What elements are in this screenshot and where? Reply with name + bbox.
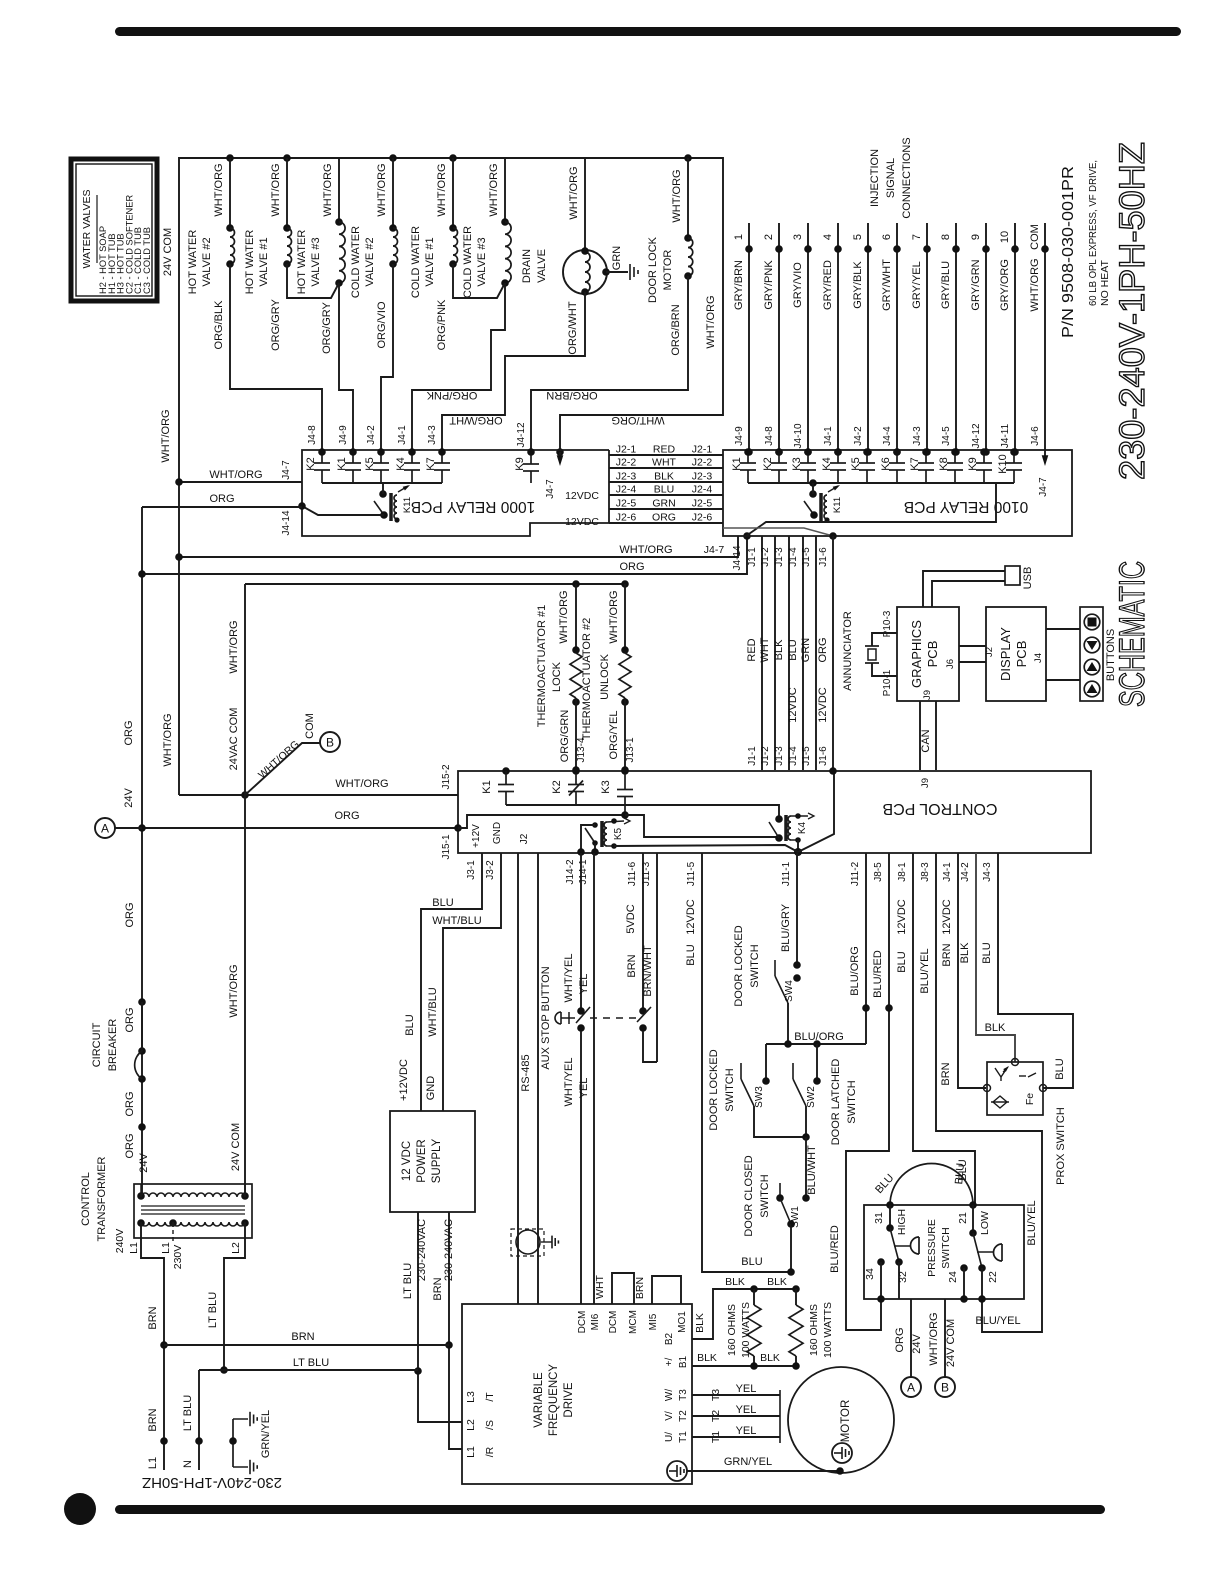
svg-text:12VDC: 12VDC [896, 899, 908, 935]
svg-text:L2: L2 [230, 1242, 242, 1254]
RS-485 wires [517, 853, 519, 1304]
page footer bar [115, 1505, 1105, 1514]
relay K5 control pcb [592, 822, 598, 828]
svg-text:J4: J4 [1033, 653, 1044, 663]
svg-text:J4-7: J4-7 [545, 479, 556, 499]
svg-text:160 OHMS: 160 OHMS [808, 1304, 820, 1356]
wire GRN/YEL ground link [687, 1470, 840, 1472]
svg-text:BLU/RED: BLU/RED [872, 950, 884, 998]
svg-text:K5: K5 [364, 457, 376, 470]
svg-text:WHT/ORG: WHT/ORG [376, 163, 388, 216]
svg-text:J14-1: J14-1 [578, 859, 589, 884]
svg-text:ORG/GRN: ORG/GRN [559, 710, 571, 763]
thermoactuator #2 UNLOCK [624, 584, 626, 650]
svg-text:J4-3: J4-3 [912, 426, 923, 446]
svg-text:31: 31 [873, 1212, 885, 1224]
svg-text:12VDC: 12VDC [941, 899, 953, 935]
svg-text:LOW: LOW [979, 1211, 991, 1235]
svg-text:K10: K10 [997, 454, 1009, 474]
svg-text:RED: RED [746, 638, 758, 661]
svg-text:+/: +/ [664, 1357, 675, 1366]
relay coil K11 0100 pcb [809, 479, 817, 487]
svg-text:L1: L1 [128, 1242, 140, 1254]
control pcb step +12V [458, 815, 490, 828]
svg-text:J1-4: J1-4 [788, 547, 799, 567]
wire GRN to earth [606, 271, 628, 273]
svg-text:J4-1: J4-1 [942, 862, 953, 882]
svg-text:J1-2: J1-2 [760, 547, 771, 567]
svg-text:L1: L1 [160, 1242, 172, 1254]
svg-text:SWITCH: SWITCH [749, 944, 761, 987]
wire ORG rail to J4-14 [142, 536, 747, 574]
svg-text:+12V: +12V [471, 824, 482, 848]
svg-text:WHT: WHT [594, 1274, 606, 1298]
MOTOR circle [788, 1367, 894, 1473]
svg-text:GRY/VIO: GRY/VIO [792, 262, 804, 308]
svg-text:J4-7: J4-7 [281, 460, 292, 480]
svg-text:DISPLAY: DISPLAY [998, 627, 1013, 681]
svg-text:ORG/VIO: ORG/VIO [376, 301, 388, 349]
svg-text:J9: J9 [920, 778, 931, 788]
prox contact symbol [1019, 1075, 1026, 1077]
svg-text:K8: K8 [938, 457, 950, 470]
svg-text:K9: K9 [514, 457, 526, 470]
svg-text:12 VDC: 12 VDC [401, 1141, 413, 1181]
svg-text:K7: K7 [909, 457, 921, 470]
svg-text:DOOR LOCK: DOOR LOCK [647, 236, 659, 303]
svg-text:230-240V-1PH-50HZ: 230-240V-1PH-50HZ [142, 1474, 282, 1491]
svg-text:5VDC: 5VDC [625, 904, 637, 933]
12 VDC POWER SUPPLY box [390, 1111, 475, 1212]
svg-text:ORG/WHT: ORG/WHT [449, 414, 502, 426]
svg-text:BLK: BLK [985, 1022, 1006, 1034]
svg-text:GRN/YEL: GRN/YEL [724, 1456, 772, 1468]
svg-text:J4-2: J4-2 [853, 426, 864, 446]
svg-text:J1-3: J1-3 [774, 746, 785, 766]
svg-text:GRAPHICS: GRAPHICS [909, 620, 924, 688]
svg-text:SW2: SW2 [806, 1086, 817, 1108]
svg-text:YEL: YEL [736, 1425, 757, 1437]
svg-text:GRY/WHT: GRY/WHT [881, 259, 893, 311]
svg-text:230-240VAC: 230-240VAC [443, 1219, 455, 1281]
svg-text:J14-2: J14-2 [565, 859, 576, 884]
relay contact K2 [321, 450, 323, 463]
svg-text:ORG: ORG [619, 561, 644, 573]
terminal A wire [910, 1299, 912, 1377]
svg-text:BRN: BRN [941, 943, 953, 966]
svg-text:HOT WATER: HOT WATER [296, 230, 308, 295]
svg-text:J6: J6 [945, 659, 956, 669]
svg-text:DOOR LOCKED: DOOR LOCKED [708, 1049, 720, 1130]
svg-text:ORG: ORG [209, 493, 234, 505]
svg-text:BRN: BRN [626, 954, 638, 977]
svg-text:J11-1: J11-1 [781, 861, 792, 886]
svg-text:CIRCUIT: CIRCUIT [91, 1022, 103, 1067]
svg-text:BLU/RED: BLU/RED [829, 1225, 841, 1273]
svg-text:100 WATTS: 100 WATTS [740, 1302, 752, 1358]
svg-text:USB: USB [1022, 567, 1034, 590]
svg-text:BLK: BLK [697, 1352, 717, 1364]
wire B2 to resistor bank [692, 1289, 796, 1339]
drain valve [584, 158, 586, 250]
wire LT BLU mains bus [199, 1369, 418, 1371]
svg-text:WHT/ORG: WHT/ORG [335, 778, 388, 790]
svg-text:K9: K9 [967, 457, 979, 470]
pressure switch HIGH contact 31-32 [889, 1205, 891, 1226]
svg-text:24V COM: 24V COM [162, 228, 174, 276]
svg-text:12VDC: 12VDC [817, 687, 829, 723]
svg-text:J4-1: J4-1 [397, 425, 408, 445]
svg-text:24V: 24V [911, 1334, 923, 1354]
svg-text:J2-1: J2-1 [616, 444, 637, 456]
svg-text:SWITCH: SWITCH [724, 1068, 736, 1111]
PROX SWITCH box [987, 1062, 1043, 1115]
svg-text:ORG: ORG [817, 637, 829, 662]
svg-text:BLU: BLU [981, 942, 993, 963]
svg-text:PCB: PCB [925, 641, 940, 668]
svg-text:ORG/WHT: ORG/WHT [567, 301, 579, 354]
svg-text:DOOR CLOSED: DOOR CLOSED [743, 1155, 755, 1236]
svg-text:B: B [941, 1381, 949, 1395]
svg-text:ORG/PNK: ORG/PNK [426, 389, 477, 401]
svg-text:3: 3 [792, 234, 804, 240]
svg-text:+12VDC: +12VDC [398, 1059, 410, 1101]
svg-text:K11: K11 [402, 497, 413, 513]
svg-text:GND: GND [425, 1076, 437, 1101]
svg-text:J8-3: J8-3 [920, 862, 931, 882]
svg-text:GRY/BLU: GRY/BLU [940, 261, 952, 309]
svg-text:ORG/GRY: ORG/GRY [321, 301, 333, 353]
svg-text:GRY/ORG: GRY/ORG [999, 259, 1011, 311]
svg-text:LT BLU: LT BLU [402, 1263, 414, 1299]
svg-text:1: 1 [733, 234, 745, 240]
svg-text:YEL: YEL [736, 1404, 757, 1416]
pressure switch LOW contact 21-22 [972, 1205, 974, 1231]
arrow J4-6 into 1000 relay pcb [556, 448, 564, 456]
svg-text:DCM: DCM [577, 1311, 588, 1334]
CAN bus wires [919, 701, 921, 770]
transformer 230V tap dashed [172, 1223, 174, 1244]
svg-text:WHT/ORG: WHT/ORG [270, 163, 282, 216]
svg-text:WHT/ORG: WHT/ORG [322, 163, 334, 216]
svg-text:Fe: Fe [1024, 1093, 1036, 1105]
svg-text:BLU: BLU [685, 944, 697, 965]
high pressure dome [894, 1245, 911, 1247]
svg-text:YEL: YEL [736, 1383, 757, 1395]
relay contact K5 [380, 450, 382, 463]
svg-text:J11-2: J11-2 [850, 861, 861, 886]
transformer core [141, 1205, 245, 1207]
svg-text:BLU: BLU [1054, 1058, 1066, 1079]
wire BLK J4-2 to prox switch [976, 853, 1015, 1062]
svg-text:LT BLU: LT BLU [207, 1292, 219, 1328]
motor wires T3 T2 T1 [692, 1394, 780, 1396]
injection line 2 GRY/PNK [778, 223, 780, 452]
relay contact K7 [441, 450, 443, 463]
svg-text:VALVE #2: VALVE #2 [364, 237, 376, 286]
svg-text:A: A [101, 822, 109, 836]
svg-text:MO1: MO1 [677, 1311, 688, 1333]
BLU/ORG node bus [766, 1043, 866, 1045]
svg-text:J3-2: J3-2 [485, 860, 496, 880]
0100 RELAY PCB box [723, 450, 1072, 536]
svg-text:WHT/YEL: WHT/YEL [563, 1058, 575, 1107]
svg-text:J1-4: J1-4 [788, 746, 799, 766]
svg-text:WHT: WHT [652, 457, 676, 469]
svg-text:DOOR LATCHED: DOOR LATCHED [830, 1059, 842, 1146]
svg-text:4: 4 [822, 234, 834, 240]
DISPLAY PCB box [986, 607, 1046, 701]
svg-text:GRN: GRN [800, 638, 812, 663]
svg-text:K3: K3 [600, 780, 612, 793]
svg-text:J1-6: J1-6 [818, 547, 829, 567]
svg-text:WHT/BLU: WHT/BLU [427, 987, 439, 1037]
svg-text:WHT/ORG: WHT/ORG [228, 620, 240, 673]
svg-text:NO HEAT: NO HEAT [1099, 260, 1111, 306]
AUX STOP BUTTON [580, 853, 582, 1008]
svg-text:MOTOR: MOTOR [840, 1400, 852, 1443]
GRAPHICS PCB box [897, 607, 959, 701]
svg-text:24V: 24V [123, 788, 135, 808]
svg-text:DOOR LOCKED: DOOR LOCKED [733, 925, 745, 1006]
svg-text:BLU/GRY: BLU/GRY [780, 903, 792, 952]
wire BRN mains bus [164, 1344, 449, 1346]
wire ORG/BLK HW2 to J4-8 [230, 264, 322, 452]
svg-text:V/: V/ [664, 1411, 675, 1421]
svg-text:/R: /R [484, 1446, 496, 1457]
1000 RELAY PCB box [302, 450, 609, 536]
svg-text:WHT/ORG: WHT/ORG [568, 166, 580, 219]
svg-text:BLK: BLK [760, 1352, 780, 1364]
svg-text:VALVE #1: VALVE #1 [258, 237, 270, 286]
wire BLU/YEL J8-3 to pressure switch 22 [936, 853, 1042, 1332]
svg-text:ORG: ORG [334, 810, 359, 822]
svg-text:B: B [326, 736, 334, 750]
svg-text:K1: K1 [481, 780, 493, 793]
svg-text:BLK: BLK [767, 1276, 787, 1288]
svg-text:24V COM: 24V COM [945, 1319, 957, 1367]
svg-text:U/: U/ [664, 1432, 675, 1442]
svg-text:230V: 230V [172, 1245, 184, 1270]
binder punch hole dot [64, 1493, 96, 1525]
solenoid valve COLD WATER VALVE #1 [449, 154, 457, 162]
svg-text:VALVE #3: VALVE #3 [476, 237, 488, 286]
svg-text:J2: J2 [519, 833, 530, 844]
svg-text:GRN/YEL: GRN/YEL [260, 1410, 272, 1458]
svg-text:HOT WATER: HOT WATER [187, 230, 199, 295]
svg-text:K6: K6 [880, 457, 892, 470]
svg-text:J1-3: J1-3 [774, 547, 785, 567]
svg-text:L1: L1 [465, 1446, 477, 1458]
svg-text:CONTROL PCB: CONTROL PCB [883, 800, 998, 817]
wire BLU 12VDC J11-5 to SW1 [702, 853, 790, 1272]
svg-text:2: 2 [763, 234, 775, 240]
legend box WATER VALVES [71, 159, 157, 301]
svg-text:BLU: BLU [896, 951, 908, 972]
svg-text:J13-1: J13-1 [625, 737, 636, 762]
svg-text:SW1: SW1 [790, 1206, 801, 1228]
svg-text:L2: L2 [465, 1419, 477, 1431]
USB connector [1005, 566, 1020, 585]
svg-text:CONTROL: CONTROL [80, 1172, 92, 1226]
svg-text:GRY/YEL: GRY/YEL [911, 261, 923, 309]
svg-text:GND: GND [492, 822, 503, 844]
svg-text:K4: K4 [821, 457, 833, 470]
svg-text:L1: L1 [147, 1457, 159, 1469]
wire K3 to K4 arm [625, 815, 777, 837]
svg-text:GRN: GRN [611, 246, 623, 271]
svg-text:N: N [182, 1460, 194, 1468]
svg-text:24: 24 [947, 1271, 959, 1283]
wire ORG 24V rail x=142 [141, 507, 143, 1196]
svg-text:COM: COM [304, 713, 316, 739]
svg-text:VALVE #3: VALVE #3 [310, 237, 322, 286]
svg-text:34: 34 [864, 1268, 876, 1280]
svg-text:WHT/BLU: WHT/BLU [432, 915, 482, 927]
svg-text:WHT/ORG: WHT/ORG [1029, 258, 1041, 311]
door locked switch SW3 [765, 1044, 767, 1081]
svg-text:BLK: BLK [959, 942, 971, 963]
svg-text:ORG/GRY: ORG/GRY [270, 298, 282, 350]
svg-text:HIGH: HIGH [896, 1209, 908, 1235]
svg-text:WHT/ORG: WHT/ORG [619, 544, 672, 556]
svg-text:24VAC COM: 24VAC COM [228, 708, 240, 771]
power supply output wires [418, 1212, 462, 1422]
svg-text:J4-3: J4-3 [982, 862, 993, 882]
svg-text:/S: /S [484, 1420, 496, 1430]
svg-text:BLU: BLU [404, 1014, 416, 1035]
svg-text:WHT/ORG: WHT/ORG [213, 163, 225, 216]
relay contact K1 [352, 450, 354, 463]
svg-text:J1-2: J1-2 [760, 746, 771, 766]
wire 24V COM top bus [179, 158, 723, 795]
svg-text:24V COM: 24V COM [230, 1123, 242, 1171]
svg-text:230-240V-1PH-50HZ: 230-240V-1PH-50HZ [1113, 142, 1152, 480]
svg-text:ORG/BRN: ORG/BRN [670, 304, 682, 355]
solenoid valve COLD WATER VALVE #2 [389, 154, 397, 162]
svg-text:DRIVE: DRIVE [563, 1382, 575, 1417]
wire BLU/ORG J11-2 [865, 853, 867, 1044]
svg-text:WHT/ORG: WHT/ORG [928, 1312, 940, 1365]
svg-text:ORG: ORG [124, 1091, 136, 1116]
arrow COM line into 0100 pcb [1044, 452, 1046, 460]
motor ground [832, 1443, 852, 1463]
svg-text:SCHEMATIC: SCHEMATIC [1113, 561, 1152, 707]
svg-text:J4-7: J4-7 [704, 544, 725, 556]
svg-text:ORG: ORG [894, 1327, 906, 1352]
svg-text:J2-2: J2-2 [616, 457, 637, 469]
svg-text:LT BLU: LT BLU [182, 1395, 194, 1431]
svg-text:J2-5: J2-5 [692, 498, 713, 510]
svg-text:B2: B2 [664, 1332, 675, 1345]
VFD ground [667, 1461, 687, 1481]
svg-text:COLD WATER: COLD WATER [350, 226, 362, 298]
svg-text:7: 7 [911, 234, 923, 240]
svg-text:WHT/ORG: WHT/ORG [228, 964, 240, 1017]
svg-text:J11-5: J11-5 [686, 861, 697, 886]
terminal 34 [877, 1258, 885, 1266]
relay contact K3 0100 pcb [807, 450, 809, 463]
svg-text:WHT/ORG: WHT/ORG [209, 469, 262, 481]
svg-text:COLD WATER: COLD WATER [410, 226, 422, 298]
svg-text:B1: B1 [678, 1355, 689, 1368]
wire ORG/GRY to J4-9 [339, 283, 353, 452]
svg-text:J1-5: J1-5 [801, 746, 812, 766]
wire thermo common rail [245, 583, 625, 585]
terminal B wire [944, 1299, 946, 1377]
relay contact K10 0100 pcb [1013, 450, 1015, 463]
svg-text:CONNECTIONS: CONNECTIONS [901, 137, 913, 218]
svg-text:SWITCH: SWITCH [759, 1174, 771, 1217]
USB cable wires [923, 571, 1005, 607]
svg-text:WHT/ORG: WHT/ORG [162, 713, 174, 766]
wire ORG/GRY HW1-HW3 tie [287, 264, 339, 298]
svg-text:THERMOACTUATOR #1: THERMOACTUATOR #1 [536, 605, 548, 727]
solenoid valve HOT WATER VALVE #3 [338, 158, 340, 222]
terminal B circle [320, 732, 340, 752]
svg-text:9: 9 [970, 234, 982, 240]
svg-text:T3: T3 [678, 1389, 689, 1401]
svg-text:BLU/WHT: BLU/WHT [806, 1145, 818, 1195]
svg-text:J9: J9 [922, 690, 933, 700]
transformer secondary winding [137, 1192, 145, 1200]
svg-text:/T: /T [484, 1392, 496, 1402]
svg-text:RED: RED [653, 444, 676, 456]
thermoactuator #1 LOCK [575, 584, 577, 650]
wire ORG/BRN door lock to J4-12 [531, 276, 688, 452]
svg-text:PCB: PCB [1014, 641, 1029, 668]
svg-text:60 LB OPL EXPRESS, VF DRI: 60 LB OPL EXPRESS, VF DRIVE, [1087, 160, 1099, 306]
svg-text:J2-3: J2-3 [692, 471, 713, 483]
relay contact K9 0100 pcb [983, 450, 985, 463]
svg-text:J4-11: J4-11 [1000, 423, 1011, 448]
svg-text:J1-5: J1-5 [801, 547, 812, 567]
svg-text:K2: K2 [305, 457, 317, 470]
relay contact K1 0100 pcb [747, 450, 749, 463]
svg-text:BRN: BRN [634, 1277, 646, 1299]
wire ORG/PNK CW1-CW3 tie [453, 264, 505, 298]
svg-text:LT BLU: LT BLU [293, 1357, 329, 1369]
svg-text:J2-3: J2-3 [616, 471, 637, 483]
svg-text:K2: K2 [762, 457, 774, 470]
svg-text:T3: T3 [710, 1389, 722, 1401]
prox sensor symbol [995, 1068, 1001, 1077]
wire K4 coil to J11-1 node [791, 839, 798, 841]
svg-text:BRN: BRN [940, 1062, 952, 1085]
svg-text:BRN: BRN [291, 1331, 314, 1343]
svg-text:VALVE #1: VALVE #1 [424, 237, 436, 286]
svg-text:K5: K5 [850, 457, 862, 470]
svg-text:J2-2: J2-2 [692, 457, 713, 469]
svg-text:WHT/ORG: WHT/ORG [608, 590, 620, 643]
wire BLU/RED J8-5 to pressure switch 34 [846, 853, 889, 1330]
wire BLU J3-1 to power supply [421, 853, 482, 1111]
injection line 6 GRY/WHT [896, 223, 898, 452]
svg-text:BLK: BLK [694, 1313, 706, 1333]
svg-text:230-240VAC: 230-240VAC [416, 1219, 428, 1281]
svg-text:MCM: MCM [628, 1310, 639, 1334]
wire transformer L1 to mains [141, 1223, 164, 1470]
svg-text:12VDC: 12VDC [565, 490, 599, 502]
svg-text:5: 5 [852, 234, 864, 240]
svg-text:PROX SWITCH: PROX SWITCH [1055, 1107, 1067, 1185]
svg-text:J4-5: J4-5 [941, 426, 952, 446]
svg-text:J4-12: J4-12 [971, 423, 982, 448]
svg-text:WHT/ORG: WHT/ORG [671, 169, 683, 222]
ferrite toroid on RS-485 [511, 1229, 544, 1256]
wire ORG/VIO CW2 to J4-2 [381, 264, 393, 452]
injection line 1 GRY/BRN [748, 223, 750, 452]
